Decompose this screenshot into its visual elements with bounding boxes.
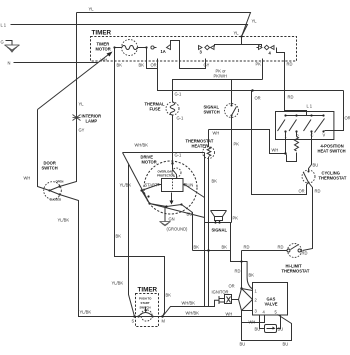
wire WH vertical to door switch xyxy=(38,110,50,191)
svg-text:WH: WH xyxy=(24,176,31,181)
wire fuse to drive motor xyxy=(172,115,174,163)
svg-text:M: M xyxy=(162,319,166,324)
svg-text:WH: WH xyxy=(249,320,256,325)
motor ground GN xyxy=(160,207,189,232)
wire L1 feed inside timer to contacts 3 and 4 xyxy=(215,37,242,47)
svg-text:S: S xyxy=(132,319,135,324)
junction OR at bowtie xyxy=(240,287,242,289)
svg-text:START: START xyxy=(141,301,150,305)
svg-text:YL: YL xyxy=(89,7,95,12)
svg-text:(GROUND): (GROUND) xyxy=(167,227,189,232)
timer contact 4 xyxy=(257,45,275,55)
flame sensor between pin4 and pin5 xyxy=(255,315,284,333)
svg-text:WH/BK: WH/BK xyxy=(182,301,196,306)
drive motor M2 quad frame xyxy=(120,143,205,218)
svg-text:TIMER: TIMER xyxy=(138,287,158,294)
wire WH heat switch 1 to thermostat heater xyxy=(209,130,286,154)
svg-text:BK: BK xyxy=(212,179,218,184)
svg-text:1A: 1A xyxy=(161,49,166,54)
wire RD cycling thermostat to hi-limit xyxy=(303,183,313,251)
svg-text:RD: RD xyxy=(288,95,294,100)
drive motor dashed circle xyxy=(141,153,198,215)
svg-text:VALVE: VALVE xyxy=(265,302,278,307)
svg-text:GY: GY xyxy=(204,63,210,68)
wire YL vertical to interior lamp xyxy=(60,13,77,187)
wire YL top run xyxy=(77,13,251,37)
svg-text:PK: PK xyxy=(233,216,239,221)
svg-text:YL: YL xyxy=(234,31,240,36)
svg-text:MOTOR: MOTOR xyxy=(96,47,111,52)
svg-text:YL/BK: YL/BK xyxy=(120,183,132,188)
svg-text:SWITCH: SWITCH xyxy=(204,110,220,115)
svg-text:PK: PK xyxy=(234,142,240,147)
wire L1 horizontal xyxy=(11,25,248,37)
svg-text:YL: YL xyxy=(79,102,85,107)
svg-text:G-1: G-1 xyxy=(177,116,185,121)
svg-text:OPEN: OPEN xyxy=(56,180,64,184)
svg-text:YL/BK: YL/BK xyxy=(112,281,124,286)
timer contact 1A xyxy=(154,41,180,59)
timer motor M1 xyxy=(96,40,148,56)
4-position heat switch S3 xyxy=(276,104,334,140)
wire bus right end down to heat switch V xyxy=(325,91,344,131)
wire bottom main S to M xyxy=(135,316,165,318)
svg-text:BK: BK xyxy=(116,234,122,239)
svg-text:RD: RD xyxy=(278,245,284,250)
wire OR vertical long to cycling thermostat xyxy=(252,91,307,195)
wire fuse net horizontal PK or PK/WH xyxy=(173,80,263,102)
timer dashed enclosure xyxy=(91,37,297,62)
wire N neutral horizontal to WH diagonal xyxy=(14,62,99,64)
junction OR at bus xyxy=(251,89,253,91)
wire BU motor to bus xyxy=(182,205,193,251)
contact terminal circle xyxy=(151,46,154,49)
wire YL/BK door switch to start switch S xyxy=(60,195,135,317)
svg-text:WH: WH xyxy=(213,131,220,136)
wire BK timer motor left down long xyxy=(115,48,165,317)
svg-text:YL/BK: YL/BK xyxy=(58,218,70,223)
gas valve A1 xyxy=(253,283,288,316)
svg-text:PUSH TO: PUSH TO xyxy=(139,297,152,301)
svg-text:IGNITOR: IGNITOR xyxy=(212,290,229,295)
svg-text:RD: RD xyxy=(315,189,321,194)
wire motor right side down (twin left) xyxy=(204,153,206,307)
svg-text:G: G xyxy=(1,40,4,45)
ground chassis symbol top-left xyxy=(5,45,20,52)
svg-text:WH: WH xyxy=(101,58,108,63)
svg-text:OR: OR xyxy=(151,63,157,68)
motor windings START RUN xyxy=(145,179,194,192)
hi-limit thermostat S6 xyxy=(282,244,310,274)
svg-text:SWITCH: SWITCH xyxy=(42,166,58,171)
svg-text:OR: OR xyxy=(299,189,305,194)
wire BK curve to gas valve pin1 xyxy=(235,262,255,290)
svg-text:PK/WH: PK/WH xyxy=(214,74,227,79)
signal switch S2 xyxy=(204,80,239,223)
svg-text:THERMOSTAT: THERMOSTAT xyxy=(319,176,347,181)
svg-text:GY: GY xyxy=(79,128,85,133)
svg-text:BK: BK xyxy=(117,63,123,68)
svg-text:RD: RD xyxy=(287,62,293,67)
svg-text:BU: BU xyxy=(278,327,284,332)
svg-text:TIMER: TIMER xyxy=(92,30,112,37)
svg-text:CLOSED: CLOSED xyxy=(50,198,62,202)
wire YL/BK start winding to S xyxy=(129,165,135,317)
svg-text:BK: BK xyxy=(166,293,172,298)
svg-text:GN: GN xyxy=(169,217,175,222)
svg-text:PK: PK xyxy=(256,62,262,67)
timer contact 3 xyxy=(199,45,215,54)
wire BK timer motor right down to OR node xyxy=(147,48,158,69)
wire OR vertical from 1A xyxy=(158,59,344,91)
overload protector inside motor xyxy=(157,162,181,178)
svg-text:BU: BU xyxy=(240,342,246,347)
svg-text:N: N xyxy=(8,61,11,66)
svg-text:BK: BK xyxy=(249,273,255,278)
svg-text:YL: YL xyxy=(252,19,258,24)
door switch S5 xyxy=(42,161,64,202)
motor centrifugal switch xyxy=(140,185,204,208)
bowtie crossover wires to gas valve xyxy=(239,289,253,311)
interior lamp DS1 xyxy=(73,102,102,133)
svg-text:L 1: L 1 xyxy=(1,23,7,28)
svg-text:BU: BU xyxy=(283,342,289,347)
svg-text:BU: BU xyxy=(313,163,319,168)
svg-text:WH/BK: WH/BK xyxy=(135,143,149,148)
svg-text:L 1: L 1 xyxy=(307,104,313,109)
thermostat heater R2 xyxy=(186,130,218,307)
svg-text:BK: BK xyxy=(222,245,228,250)
wire 1A out to contact 3 xyxy=(180,59,206,69)
svg-text:FUSE: FUSE xyxy=(150,107,161,112)
push to start timer box xyxy=(136,287,159,327)
svg-text:RD: RD xyxy=(302,251,308,256)
svg-text:OR: OR xyxy=(255,96,261,101)
svg-text:MOTOR: MOTOR xyxy=(142,160,157,165)
wire WH gas valve pin3/M line vertical xyxy=(242,311,265,323)
wire RD contact4 right to heat switch L1 xyxy=(277,48,307,116)
svg-text:RD: RD xyxy=(244,245,250,250)
wire PK contact4 left drop xyxy=(262,59,264,80)
svg-text:OR: OR xyxy=(229,284,235,289)
svg-text:WH/BK: WH/BK xyxy=(186,311,200,316)
svg-text:V: V xyxy=(323,133,326,138)
ignitor E1 xyxy=(212,290,239,305)
svg-text:WH: WH xyxy=(226,312,233,317)
wire ground lead xyxy=(6,41,13,46)
signal buzzer SIGNAL xyxy=(205,211,232,233)
svg-text:OR: OR xyxy=(345,116,350,121)
svg-text:RD: RD xyxy=(235,269,241,274)
svg-text:BU: BU xyxy=(255,327,261,332)
bus BK bottom horizontal xyxy=(193,223,288,289)
svg-text:LAMP: LAMP xyxy=(86,119,98,124)
svg-text:G-1: G-1 xyxy=(175,153,183,158)
svg-text:BU: BU xyxy=(187,212,193,217)
svg-text:THERMOSTAT: THERMOSTAT xyxy=(282,269,310,274)
svg-text:YL/BK: YL/BK xyxy=(80,310,92,315)
cycling thermostat S4 xyxy=(302,170,347,184)
svg-text:WH: WH xyxy=(272,148,279,153)
svg-text:BK: BK xyxy=(194,245,200,250)
svg-text:BK: BK xyxy=(139,63,145,68)
wire WH/BK lower M to gas valve WH node xyxy=(165,311,242,317)
wire BU loop bottom xyxy=(240,315,292,347)
svg-text:HEAT SWITCH: HEAT SWITCH xyxy=(318,149,346,154)
wire BU heat switch C to cycling thermostat xyxy=(309,132,312,171)
svg-text:G-1: G-1 xyxy=(175,92,183,97)
wire OR leg from cycling thermostat bottom xyxy=(307,183,309,185)
junction top of timer box xyxy=(240,35,242,37)
wire WH/BK upper M to ignitor xyxy=(163,300,220,316)
resistor R1 under heat switch 2 xyxy=(287,132,299,162)
wire WH diagonal with arrow to timer motor xyxy=(38,52,113,110)
svg-text:PROTECTOR: PROTECTOR xyxy=(157,173,175,177)
svg-text:SIGNAL: SIGNAL xyxy=(212,228,228,233)
thermal fuse F1 xyxy=(145,92,185,121)
